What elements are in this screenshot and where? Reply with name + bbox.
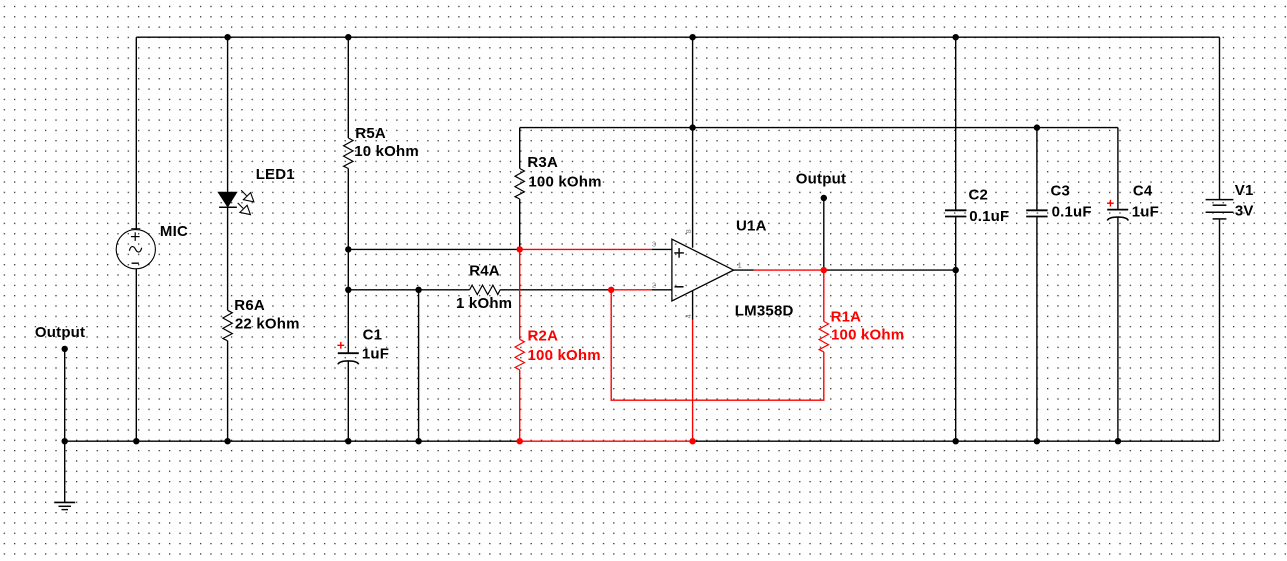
node junction <box>345 34 351 40</box>
wire LED1 cathode to R6A <box>227 207 229 310</box>
svg-text:LM358D: LM358D <box>735 302 794 319</box>
source MIC <box>116 223 188 269</box>
node junction <box>224 34 230 40</box>
node junction <box>689 34 695 40</box>
wire ground rail right (black) <box>693 440 1220 442</box>
node junction (red net) <box>517 246 523 252</box>
wire C4 bottom to ground rail <box>1117 217 1119 441</box>
wire ground stem <box>64 441 66 502</box>
svg-text:R6A: R6A <box>234 297 265 314</box>
wire node A to C1 <box>347 249 349 352</box>
svg-text:1: 1 <box>738 261 742 270</box>
wire Output-left terminal drop <box>64 349 66 441</box>
wire +input junction to op-amp (red) <box>520 248 652 250</box>
wire pin 8 vertical from V+ rail <box>692 37 694 248</box>
resistor R5A 10 kOhm <box>344 125 419 168</box>
svg-text:R2A: R2A <box>528 328 559 345</box>
svg-text:22 kOhm: 22 kOhm <box>235 315 300 332</box>
wire R3A top <box>519 128 521 169</box>
wire R5A to node A <box>347 169 349 250</box>
node junction <box>953 34 959 40</box>
node junction <box>415 438 421 444</box>
resistor R1A 100 kOhm (red) <box>819 309 904 352</box>
node junction (red net) <box>517 438 523 444</box>
LED LED1 <box>218 166 295 215</box>
node junction (red net) <box>608 287 614 293</box>
svg-text:1uF: 1uF <box>1132 204 1159 221</box>
wire ground rail middle (red) <box>520 440 693 442</box>
wire C4 top from feedback rail <box>1117 128 1119 209</box>
resistor R6A 22 kOhm <box>223 297 300 341</box>
svg-text:8: 8 <box>684 229 693 233</box>
svg-text:C4: C4 <box>1133 183 1153 200</box>
svg-text:10 kOhm: 10 kOhm <box>354 143 419 160</box>
wire R4A to inverting input (black) <box>500 289 611 291</box>
wire pin 1 stub <box>734 269 754 271</box>
svg-text:MIC: MIC <box>160 223 188 240</box>
node junction <box>224 438 230 444</box>
wire V+ drop to battery V1 <box>1219 37 1221 199</box>
wire pin 4 to ground rail (red) <box>692 320 694 441</box>
svg-text:100 kOhm: 100 kOhm <box>528 174 601 191</box>
wire feedback top rail y=127.6 <box>520 127 1118 129</box>
wire C1 to ground rail <box>347 361 349 441</box>
capacitor C3 0.1uF <box>1026 183 1092 221</box>
svg-text:100 kOhm: 100 kOhm <box>831 326 904 343</box>
node junction <box>61 346 67 352</box>
wire MIC bottom to ground rail <box>135 269 137 441</box>
node junction <box>61 438 67 444</box>
wire V+ to R5A <box>347 37 349 138</box>
svg-text:LED1: LED1 <box>256 166 295 183</box>
wire node A to R4A (y=289.8) <box>348 289 469 291</box>
svg-text:3V: 3V <box>1235 202 1254 219</box>
node junction <box>689 124 695 130</box>
svg-text:Output: Output <box>35 324 85 341</box>
node junction (red net) <box>689 438 695 444</box>
wire R1A feedback to inverting input (red) <box>611 290 824 400</box>
wire V+ to LED1 anode <box>227 37 229 192</box>
op-amp U1A LM358D <box>672 218 794 320</box>
wire C3 bottom to ground rail <box>1036 217 1038 441</box>
capacitor C1 1uF (polarized) <box>337 326 389 364</box>
node junction <box>345 287 351 293</box>
svg-text:U1A: U1A <box>736 218 767 235</box>
node junction <box>953 438 959 444</box>
wire output node up to Output terminal <box>823 198 825 270</box>
resistor R3A 100 kOhm <box>515 154 602 199</box>
wire op-amp output (red) <box>754 269 824 271</box>
node junction <box>1034 124 1040 130</box>
svg-text:Output: Output <box>796 171 846 188</box>
wire pin 2 stub <box>652 289 672 291</box>
wire output node to R1A (red) <box>823 270 825 321</box>
wire node A to +input junction (black) <box>348 248 519 250</box>
svg-text:0.1uF: 0.1uF <box>969 208 1009 225</box>
node junction <box>821 195 827 201</box>
wire +input junction to R2A (red) <box>519 249 521 339</box>
node junction <box>345 438 351 444</box>
node junction <box>345 246 351 252</box>
svg-text:100 kOhm: 100 kOhm <box>528 347 601 364</box>
wire C2 bottom to ground rail <box>955 217 957 441</box>
node junction <box>1034 438 1040 444</box>
resistor R4A 1 kOhm <box>456 263 512 312</box>
node junction (red net) <box>821 267 827 273</box>
wire battery V1 to ground rail <box>1219 219 1221 441</box>
resistor R2A 100 kOhm (red) <box>515 328 601 370</box>
svg-text:2: 2 <box>652 281 656 290</box>
svg-text:4: 4 <box>684 314 693 318</box>
svg-text:C2: C2 <box>969 187 989 204</box>
capacitor C4 1uF (polarized) <box>1107 183 1159 221</box>
capacitor C2 0.1uF <box>945 187 1009 225</box>
ground <box>54 502 75 509</box>
svg-text:1 kOhm: 1 kOhm <box>456 295 512 312</box>
svg-text:R1A: R1A <box>831 309 862 326</box>
node junction <box>1115 438 1121 444</box>
svg-text:R3A: R3A <box>527 154 558 171</box>
svg-text:R4A: R4A <box>469 263 500 280</box>
node junction <box>415 287 421 293</box>
wire pin 3 stub <box>652 248 672 250</box>
battery V1 3V <box>1206 182 1254 220</box>
wire C2 top <box>955 37 957 209</box>
wire ground rail left (black) <box>65 440 520 442</box>
node junction <box>953 267 959 273</box>
svg-text:R5A: R5A <box>355 125 386 142</box>
svg-text:0.1uF: 0.1uF <box>1052 204 1092 221</box>
svg-text:C1: C1 <box>363 326 383 343</box>
wire R6A to ground rail <box>227 341 229 441</box>
wire R2A to ground rail (red) <box>519 370 521 441</box>
wire inverting input (red) <box>611 289 652 291</box>
svg-text:C3: C3 <box>1051 183 1071 200</box>
wire V+ left vertical to MIC <box>135 37 137 230</box>
wire V+ top rail <box>136 36 1219 38</box>
wire R3A bottom to +input junction <box>519 199 521 250</box>
svg-text:3: 3 <box>652 240 656 249</box>
svg-text:1uF: 1uF <box>362 345 389 362</box>
wire R4A left node to ground rail <box>418 290 420 441</box>
wire output node to C2 (black) <box>824 269 956 271</box>
wire C3 top from feedback rail <box>1036 128 1038 210</box>
svg-text:V1: V1 <box>1235 182 1254 199</box>
node junction <box>133 438 139 444</box>
wire pin 4 stub <box>692 290 694 320</box>
